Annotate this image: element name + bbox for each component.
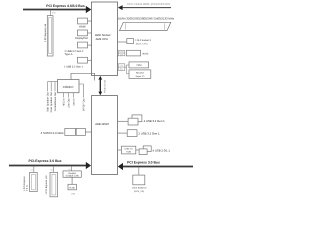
svg-text:1 M.2 Socket 3: 1 M.2 Socket 3 bbox=[135, 39, 151, 42]
svg-text:4 USB 3.2 Gen 1: 4 USB 3.2 Gen 1 bbox=[144, 119, 166, 123]
svg-text:DDR4 3200/2933/2800/2667/2400/: DDR4 3200/2933/2800/2667/2400/2133 MHz bbox=[118, 17, 175, 21]
svg-text:1 M.2 Socket 3: 1 M.2 Socket 3 bbox=[132, 187, 147, 190]
svg-text:AMD B550: AMD B550 bbox=[95, 122, 109, 126]
svg-text:BIOS: BIOS bbox=[143, 53, 149, 56]
svg-text:MIC In: MIC In bbox=[63, 98, 66, 106]
svg-text:4 USB 2.0/1.1: 4 USB 2.0/1.1 bbox=[153, 148, 171, 152]
svg-text:CODEC: CODEC bbox=[63, 85, 75, 89]
svg-text:x4: x4 bbox=[50, 169, 53, 172]
svg-text:Realtek: Realtek bbox=[68, 172, 76, 175]
svg-text:PCIe 3.0 x4: PCIe 3.0 x4 bbox=[103, 80, 106, 93]
svg-text:1 PCI Express: 1 PCI Express bbox=[23, 175, 26, 191]
svg-text:4 SATA3 6.0 Gb/s: 4 SATA3 6.0 Gb/s bbox=[41, 131, 64, 135]
svg-text:2.5GbE LAN: 2.5GbE LAN bbox=[66, 175, 79, 178]
svg-text:Bus: Bus bbox=[120, 68, 123, 71]
svg-text:PCI Express 3.0 Bus: PCI Express 3.0 Bus bbox=[127, 160, 160, 164]
svg-text:S/PDIF Out: S/PDIF Out bbox=[82, 98, 85, 111]
svg-text:HUB: HUB bbox=[126, 151, 131, 154]
svg-text:(M2A_CPU): (M2A_CPU) bbox=[136, 42, 148, 45]
svg-text:SPI: SPI bbox=[120, 53, 123, 56]
svg-text:Nuvoton: Nuvoton bbox=[136, 72, 145, 75]
svg-text:PCI Express 4.0/3.0 Bus: PCI Express 4.0/3.0 Bus bbox=[46, 4, 85, 8]
svg-text:x16: x16 bbox=[52, 11, 56, 14]
svg-text:Line In: Line In bbox=[72, 98, 75, 106]
svg-text:Super IO: Super IO bbox=[136, 75, 145, 78]
svg-text:x1: x1 bbox=[31, 169, 34, 172]
svg-text:CPU: DDR4 4866+(OC)/2133 MHz: CPU: DDR4 4866+(OC)/2133 MHz bbox=[127, 2, 171, 6]
svg-text:PCI-Express 3.0 Bus: PCI-Express 3.0 Bus bbox=[29, 159, 62, 163]
svg-text:Side Speaker Out: Side Speaker Out bbox=[46, 92, 49, 112]
svg-text:HDMI: HDMI bbox=[79, 25, 86, 28]
svg-text:Central/Bass Out: Central/Bass Out bbox=[54, 92, 57, 111]
svg-text:TPM: TPM bbox=[136, 64, 141, 67]
svg-text:32Mb: 32Mb bbox=[119, 51, 124, 54]
svg-text:USB 2.0: USB 2.0 bbox=[125, 148, 134, 151]
svg-text:RJ45: RJ45 bbox=[70, 186, 76, 189]
svg-text:(M2B_SB): (M2B_SB) bbox=[134, 190, 144, 193]
svg-text:DisplayPort: DisplayPort bbox=[75, 37, 88, 40]
svg-text:1 PCI Express x16: 1 PCI Express x16 bbox=[45, 175, 48, 195]
svg-text:Line Out: Line Out bbox=[68, 98, 71, 108]
svg-text:Rear Speaker Out: Rear Speaker Out bbox=[50, 92, 53, 112]
svg-text:LAN: LAN bbox=[71, 192, 76, 195]
svg-text:3.0 x1: 3.0 x1 bbox=[26, 184, 29, 191]
svg-text:1 USB 3.2 Gen 1: 1 USB 3.2 Gen 1 bbox=[64, 66, 84, 69]
svg-text:1 PCI Express x16: 1 PCI Express x16 bbox=[44, 23, 47, 42]
svg-text:Type-A: Type-A bbox=[65, 53, 73, 56]
svg-text:2 USB 3.2 Gen 1: 2 USB 3.2 Gen 1 bbox=[138, 132, 160, 136]
svg-text:AM4 CPU: AM4 CPU bbox=[96, 37, 108, 41]
